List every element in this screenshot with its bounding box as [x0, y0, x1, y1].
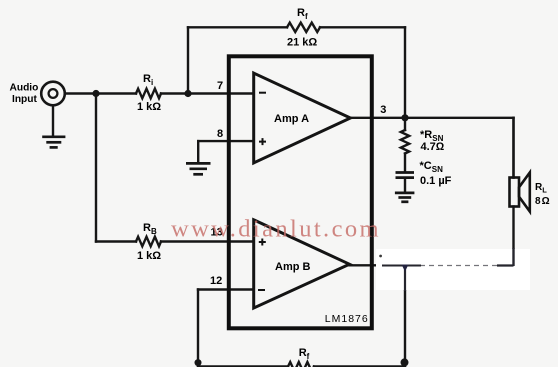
svg-text:1 kΩ: 1 kΩ — [137, 101, 161, 113]
svg-text:1 kΩ: 1 kΩ — [137, 250, 161, 262]
svg-text:Amp A: Amp A — [274, 113, 309, 125]
svg-text:Input: Input — [12, 94, 37, 105]
svg-text:0.1 µF: 0.1 µF — [420, 175, 452, 187]
svg-text:LM1876: LM1876 — [325, 313, 369, 325]
svg-text:Audio: Audio — [10, 83, 39, 94]
svg-text:Amp B: Amp B — [275, 261, 311, 273]
svg-text:www.dianlut.com: www.dianlut.com — [171, 216, 381, 243]
svg-text:21 kΩ: 21 kΩ — [287, 37, 317, 49]
svg-text:7: 7 — [217, 80, 223, 92]
svg-text:3: 3 — [380, 104, 386, 116]
svg-text:4.7Ω: 4.7Ω — [421, 141, 445, 153]
svg-text:8 Ω: 8 Ω — [535, 196, 550, 207]
svg-text:12: 12 — [210, 275, 222, 287]
svg-text:8: 8 — [217, 128, 223, 140]
